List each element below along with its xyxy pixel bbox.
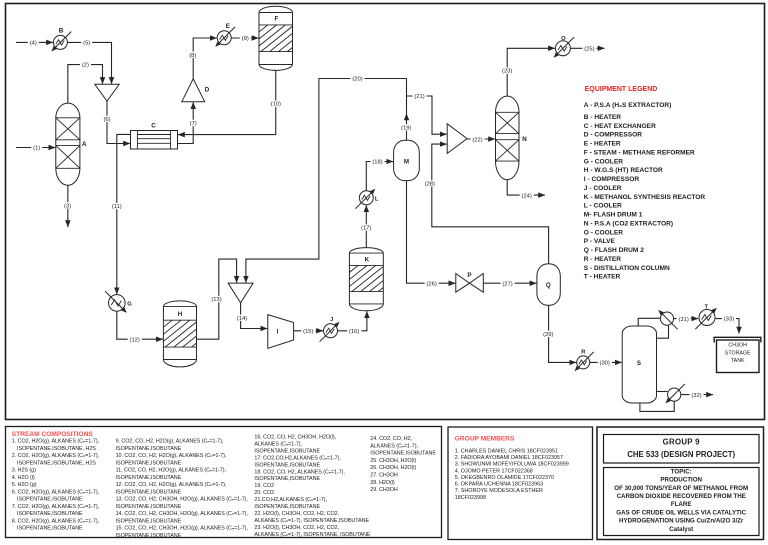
svg-text:ISOPENTANE,ISOBUTANE: ISOPENTANE,ISOBUTANE — [254, 476, 320, 482]
group members box — [448, 427, 593, 540]
svg-text:ISOPENTANE,ISOBUTANE, H2S: ISOPENTANE,ISOBUTANE, H2S — [17, 446, 96, 452]
svg-text:ISOPENTANE,ISOBUTANE: ISOPENTANE,ISOBUTANE — [17, 526, 83, 532]
svg-text:GROUP 9: GROUP 9 — [663, 438, 700, 447]
svg-text:24. CO2, CO, H2,: 24. CO2, CO, H2, — [370, 436, 412, 442]
diagram border frame — [6, 4, 765, 420]
compressor D — [182, 79, 205, 102]
stream (7) C to compressor D — [178, 102, 194, 143]
svg-text:G - COOLER: G - COOLER — [584, 158, 623, 165]
stream (1) feed into A — [16, 147, 55, 149]
svg-text:ISOPENTANE,ISOBUTANE: ISOPENTANE,ISOBUTANE — [254, 448, 320, 454]
svg-text:29. CH3OH: 29. CH3OH — [370, 487, 398, 493]
mixer2 junction triangle — [447, 124, 467, 154]
stream (32) reboiler outlet — [681, 394, 713, 396]
node label (7) — [188, 120, 199, 126]
svg-text:(2): (2) — [82, 62, 89, 68]
stream (13) H to mixer3 — [197, 259, 237, 339]
svg-text:FLARE: FLARE — [671, 501, 692, 508]
reboiler circle — [668, 388, 681, 401]
svg-text:S: S — [637, 360, 641, 367]
svg-text:12. CO2, CO, H2, H2O(g), ALKAN: 12. CO2, CO, H2, H2O(g), ALKANES (Cₙ=1-7… — [116, 482, 227, 488]
svg-text:OF 30,000 TONS/YEAR OF METHANO: OF 30,000 TONS/YEAR OF METHANOL FROM — [614, 485, 748, 492]
svg-text:STREAM COMPOSITIONS: STREAM COMPOSITIONS — [12, 431, 94, 438]
valve P — [456, 274, 470, 293]
svg-text:1. CO2, H2O(g), ALKANES (Cₙ=1-: 1. CO2, H2O(g), ALKANES (Cₙ=1-7), — [12, 439, 100, 445]
node label (19) — [399, 124, 413, 130]
svg-text:R - HEATER: R - HEATER — [584, 256, 621, 263]
svg-text:ISOPENTANE,ISOBUTANE: ISOPENTANE,ISOBUTANE — [116, 518, 182, 524]
node label (29) — [541, 331, 555, 337]
svg-text:(10): (10) — [271, 102, 281, 108]
svg-text:(8): (8) — [189, 53, 196, 59]
node label (24) — [520, 192, 534, 198]
stream (25) O outlet — [570, 47, 604, 49]
topic box — [604, 468, 760, 536]
node label (5) — [81, 39, 92, 45]
svg-text:D: D — [205, 87, 210, 94]
svg-text:I - COMPRESSOR: I - COMPRESSOR — [584, 176, 640, 183]
stream (29) Q bottom to heater R — [549, 305, 577, 362]
stream (16) J to reactor K bottom — [338, 311, 367, 331]
stream (4) feed into heater B — [16, 41, 53, 43]
svg-text:ISOPENTANE,ISOBUTANE: ISOPENTANE,ISOBUTANE — [116, 475, 182, 481]
vessel N P.S.A CO2 extractor — [496, 96, 520, 180]
svg-text:Q - FLASH DRUM 2: Q - FLASH DRUM 2 — [584, 247, 644, 254]
svg-text:28. H2O(l): 28. H2O(l) — [370, 480, 395, 486]
cooler O — [555, 41, 570, 56]
node label (21) — [413, 93, 427, 99]
stream (9) E to reformer F — [231, 37, 258, 39]
svg-text:8. CO2, H2O(g), ALKANES (Cₙ=1-: 8. CO2, H2O(g), ALKANES (Cₙ=1-7), — [12, 518, 100, 524]
svg-text:1. CHARLES DANIEL CHRIS 18CF02: 1. CHARLES DANIEL CHRIS 18CF023951 — [455, 448, 558, 454]
node label (14) — [235, 315, 249, 321]
distillation column S — [622, 326, 656, 403]
svg-text:21.CO,H2,ALKANES (Cₙ=1-7),: 21.CO,H2,ALKANES (Cₙ=1-7), — [254, 497, 327, 503]
svg-text:M: M — [404, 159, 409, 166]
svg-text:ISOPENTANE,ISOBUTANE: ISOPENTANE,ISOBUTANE — [370, 451, 436, 457]
svg-text:Catalyst: Catalyst — [669, 526, 693, 533]
svg-text:23. H2O(l), CH3OH, CO2, H2, CO: 23. H2O(l), CH3OH, CO2, H2, CO2, — [254, 525, 339, 531]
stream (12) G to reactor H — [117, 311, 163, 339]
stream (14) mixer3 to compressor I — [241, 303, 268, 329]
svg-text:11. CO2, CO, H2, H2O(g), ALKAN: 11. CO2, CO, H2, H2O(g), ALKANES (Cₙ=1-7… — [116, 468, 227, 474]
svg-text:L: L — [375, 197, 379, 203]
node label (4) — [28, 39, 39, 45]
stream compositions box — [6, 427, 442, 538]
svg-text:F: F — [275, 16, 279, 23]
node label (9) — [240, 35, 251, 41]
node label (25) — [582, 45, 596, 51]
svg-text:(30): (30) — [600, 361, 610, 367]
svg-text:6. CO2, H2O(g), ALKANES (Cₙ=1-: 6. CO2, H2O(g), ALKANES (Cₙ=1-7), — [12, 489, 100, 495]
svg-text:A: A — [82, 141, 87, 148]
mixer1 junction triangle — [95, 84, 119, 101]
node label (23) — [500, 67, 514, 73]
svg-text:GROUP MEMBERS: GROUP MEMBERS — [455, 436, 515, 443]
svg-text:(5): (5) — [83, 40, 90, 46]
svg-text:(14): (14) — [237, 316, 247, 322]
svg-text:B: B — [59, 28, 64, 35]
svg-text:E: E — [226, 23, 230, 30]
stream (19) M top up to junction — [406, 114, 408, 141]
svg-text:(31): (31) — [678, 317, 688, 323]
svg-text:G: G — [127, 302, 132, 308]
svg-text:(12): (12) — [130, 338, 140, 344]
svg-text:2. FADIORA AYOBAMI DANIEL 18CF: 2. FADIORA AYOBAMI DANIEL 18CF023957 — [455, 455, 563, 461]
svg-text:ISOPENTANE,ISOBUTANE: ISOPENTANE,ISOBUTANE — [116, 533, 182, 539]
svg-text:(11): (11) — [112, 204, 122, 210]
svg-text:5. H2O (g): 5. H2O (g) — [12, 482, 37, 488]
stream (10) F bottom to C — [178, 70, 276, 134]
vessel H WGS reactor — [163, 301, 196, 367]
svg-text:C: C — [151, 123, 156, 130]
stream (30) R to column S — [590, 361, 622, 363]
svg-text:ISOPENTANE,ISOBUTANE: ISOPENTANE,ISOBUTANE — [116, 446, 182, 452]
svg-text:S - DISTILLATION COLUMN: S - DISTILLATION COLUMN — [584, 265, 670, 272]
svg-text:20. CO2: 20. CO2 — [254, 490, 274, 496]
svg-text:O - COOLER: O - COOLER — [584, 229, 623, 236]
stream (22) mixer2 to column N — [467, 138, 495, 140]
svg-text:4. OJOMO PETER 17CF022368: 4. OJOMO PETER 17CF022368 — [455, 468, 533, 474]
vessel F steam-methane reformer — [259, 6, 293, 70]
svg-text:27. CH3OH: 27. CH3OH — [370, 473, 398, 479]
node label (13) — [210, 296, 224, 302]
stream (33) T to storage tank — [716, 319, 740, 334]
node label (16) — [347, 328, 361, 334]
svg-text:18. CO2, CO, H2, ALKANES (Cₙ=1: 18. CO2, CO, H2, ALKANES (Cₙ=1-7), — [254, 469, 345, 475]
svg-text:19. CO2: 19. CO2 — [254, 483, 274, 489]
stream (28) Q top recycle to mixer2 — [432, 144, 549, 264]
wire S overhead to condenser — [638, 318, 660, 326]
svg-text:6. OKPARA UCHENNA 18CF023963: 6. OKPARA UCHENNA 18CF023963 — [455, 482, 543, 488]
cooler J — [324, 324, 338, 338]
svg-text:16. CO2, CO, H2, CH3OH, H2O(l): 16. CO2, CO, H2, CH3OH, H2O(l), — [254, 435, 336, 441]
heater B — [53, 35, 67, 49]
svg-text:P: P — [467, 272, 471, 279]
svg-text:(23): (23) — [502, 69, 512, 75]
svg-text:(6): (6) — [103, 117, 110, 123]
svg-text:3. H2S (g): 3. H2S (g) — [12, 468, 36, 474]
stream (6) mixer1 to exchanger C — [107, 101, 130, 143]
wire condenser reflux return to S — [657, 326, 669, 339]
svg-text:D - COMPRESSOR: D - COMPRESSOR — [584, 132, 642, 139]
svg-text:(28): (28) — [425, 182, 435, 188]
svg-text:GAS OF CRUDE OIL WELLS VIA CAT: GAS OF CRUDE OIL WELLS VIA CATALYTIC — [616, 509, 746, 516]
stream (27) P to flash drum Q — [483, 282, 536, 284]
stream (17) K top to cooler L — [365, 205, 367, 247]
node label (12) — [128, 336, 142, 342]
svg-text:STORAGE: STORAGE — [725, 350, 751, 356]
wire S bottoms to reboiler loop — [640, 401, 674, 411]
stream (31) condenser to heater T — [674, 318, 699, 320]
flash drum Q — [537, 264, 560, 305]
svg-text:2. CO2, H2O(g), ALKANES (Cₙ=1-: 2. CO2, H2O(g), ALKANES (Cₙ=1-7), — [12, 453, 100, 459]
vessel K methanol synthesis reactor — [349, 248, 383, 311]
svg-text:E - HEATER: E - HEATER — [584, 141, 621, 148]
svg-text:ISOPENTANE,ISOBUTANE, H2S: ISOPENTANE,ISOBUTANE, H2S — [17, 460, 96, 466]
node label (6) — [102, 116, 113, 122]
svg-text:HYDROGENATION USING Cu/Zn/Al2O: HYDROGENATION USING Cu/Zn/Al2O 3/Zr — [619, 518, 744, 525]
svg-text:TOPIC:: TOPIC: — [671, 468, 692, 475]
svg-text:B - HEATER: B - HEATER — [584, 114, 621, 121]
svg-text:M- FLASH DRUM 1: M- FLASH DRUM 1 — [584, 212, 643, 219]
stream (21) junction to mixer2 — [407, 96, 447, 134]
svg-text:P - VALVE: P - VALVE — [584, 238, 616, 245]
svg-text:(21): (21) — [414, 94, 424, 100]
node label (15) — [301, 328, 315, 334]
svg-text:I: I — [277, 329, 279, 336]
svg-text:(4): (4) — [30, 41, 37, 47]
node label (33) — [722, 315, 736, 321]
svg-text:15. CO2, CO, H2, CH3OH, H2O(g): 15. CO2, CO, H2, CH3OH, H2O(g), ALKANES … — [116, 526, 249, 532]
svg-text:J: J — [330, 317, 333, 323]
node label (31) — [677, 316, 691, 322]
stream (18) L to flash drum M — [366, 162, 393, 191]
stream (2) A top to mixer1 — [68, 65, 103, 104]
svg-text:PRODUCTION: PRODUCTION — [660, 477, 702, 484]
mixer3 junction triangle — [228, 283, 253, 303]
wire S side draw to reboiler — [657, 391, 668, 393]
svg-text:25. CH3OH, H2O(l): 25. CH3OH, H2O(l) — [370, 458, 416, 464]
svg-text:CH3OH: CH3OH — [728, 343, 747, 349]
CH3OH storage tank — [717, 340, 760, 373]
svg-text:(13): (13) — [211, 297, 221, 303]
svg-text:26. CH3OH, H2O(l): 26. CH3OH, H2O(l) — [370, 465, 416, 471]
svg-text:7. SHOROYE MODESOLA ESTHER: 7. SHOROYE MODESOLA ESTHER — [455, 488, 543, 494]
svg-text:H - W.G.S (HT) REACTOR: H - W.G.S (HT) REACTOR — [584, 167, 663, 174]
svg-text:N - P.S.A (CO2 EXTRACTOR): N - P.S.A (CO2 EXTRACTOR) — [584, 220, 673, 227]
svg-text:EQUIPMENT LEGEND: EQUIPMENT LEGEND — [585, 86, 658, 93]
svg-text:H: H — [178, 311, 183, 318]
svg-text:(29): (29) — [543, 332, 553, 338]
svg-text:10. CO2, CO, H2, H2O(g), ALKAN: 10. CO2, CO, H2, H2O(g), ALKANES (Cₙ=1-7… — [116, 453, 227, 459]
node label (8) — [187, 52, 198, 58]
cooler G — [109, 295, 126, 312]
node label (17) — [359, 224, 373, 230]
svg-text:4. H2O (l): 4. H2O (l) — [12, 475, 35, 481]
svg-text:K - METHANOL SYNTHESIS REACTOR: K - METHANOL SYNTHESIS REACTOR — [584, 194, 706, 201]
svg-text:CARBON DIOXIDE RECOVERED FROM: CARBON DIOXIDE RECOVERED FROM THE — [617, 493, 746, 500]
svg-text:7. CO2, H2O(g), ALKANES (Cₙ=1-: 7. CO2, H2O(g), ALKANES (Cₙ=1-7), — [12, 504, 100, 510]
svg-text:(25): (25) — [584, 46, 594, 52]
heater E — [217, 31, 231, 45]
cooler L — [359, 191, 373, 205]
svg-text:ALKANES (Cₙ=1-7),: ALKANES (Cₙ=1-7), — [370, 443, 418, 449]
stream (8) D to heater E — [193, 38, 217, 79]
node label (2) — [80, 61, 91, 67]
svg-text:(32): (32) — [691, 393, 701, 399]
svg-text:A - P.S.A (H₂S EXTRACTOR): A - P.S.A (H₂S EXTRACTOR) — [584, 102, 672, 109]
stream (3) A bottoms out — [67, 185, 69, 227]
svg-text:O: O — [561, 36, 566, 42]
svg-text:(3): (3) — [64, 203, 71, 209]
node label (18) — [371, 158, 385, 164]
svg-text:17. CO2,CO,H2,ALKANES (Cₙ=1-7): 17. CO2,CO,H2,ALKANES (Cₙ=1-7), — [254, 455, 341, 461]
node label (26) — [425, 280, 439, 286]
svg-text:(17): (17) — [361, 226, 371, 232]
title block outer box — [597, 427, 764, 540]
node label (28) — [423, 180, 437, 186]
svg-text:ISOPENTANE,ISOBUTANE: ISOPENTANE,ISOBUTANE — [116, 460, 182, 466]
heat exchanger C — [131, 131, 178, 150]
heater R — [577, 356, 590, 369]
stream (11) C to cooler G — [117, 134, 131, 294]
svg-text:(18): (18) — [372, 160, 382, 166]
svg-text:(1): (1) — [33, 146, 40, 152]
svg-text:T - HEATER: T - HEATER — [584, 274, 621, 281]
svg-text:L - COOLER: L - COOLER — [584, 203, 622, 210]
stream (26) M bottom to valve P — [407, 181, 456, 284]
node label (22) — [471, 136, 485, 142]
heater T — [699, 310, 715, 326]
svg-text:(20): (20) — [352, 77, 362, 83]
svg-text:ISOPENTANE,ISOBUTANE: ISOPENTANE,ISOBUTANE — [116, 489, 182, 495]
svg-text:ALKANES (Cₙ=1-7), ISOPENTANE,I: ALKANES (Cₙ=1-7), ISOPENTANE,ISOBUTANE — [254, 518, 369, 524]
svg-text:ISOPENTANE,ISOBUTANE: ISOPENTANE,ISOBUTANE — [116, 504, 182, 510]
node label (30) — [598, 359, 612, 365]
node label (1) — [31, 144, 42, 150]
svg-text:(7): (7) — [190, 121, 197, 127]
stream (5) B to mixer1 — [67, 42, 111, 84]
svg-text:(15): (15) — [303, 329, 313, 335]
svg-text:(16): (16) — [349, 329, 359, 335]
svg-text:F - STEAM - METHANE REFORMER: F - STEAM - METHANE REFORMER — [584, 149, 695, 156]
svg-text:C - HEAT EXCHANGER: C - HEAT EXCHANGER — [584, 123, 656, 130]
svg-text:22. H2O(l), CH3OH, CO2, H2, CO: 22. H2O(l), CH3OH, CO2, H2, CO2, — [254, 511, 339, 517]
svg-text:CHE 533 (DESIGN PROJECT): CHE 533 (DESIGN PROJECT) — [627, 450, 735, 459]
svg-text:ISOPENTANE,ISOBUTANE: ISOPENTANE,ISOBUTANE — [17, 511, 83, 517]
svg-text:ISOPENTANE,ISOBUTANE: ISOPENTANE,ISOBUTANE — [254, 462, 320, 468]
svg-text:(9): (9) — [242, 36, 249, 42]
vessel A P.S.A H2S extractor — [56, 103, 80, 185]
svg-text:ALKANES (Cₙ=1-7),: ALKANES (Cₙ=1-7), — [254, 441, 302, 447]
svg-text:(33): (33) — [724, 317, 734, 323]
node label (20) — [351, 75, 365, 81]
compressor I — [268, 315, 294, 349]
node label (11) — [110, 203, 124, 209]
node label (32) — [690, 392, 704, 398]
node label (27) — [501, 280, 515, 286]
svg-text:(27): (27) — [502, 281, 512, 287]
svg-text:18CF023998: 18CF023998 — [455, 495, 486, 501]
svg-text:ALKANES (Cₙ=1-7), ISOPENTANE,: ALKANES (Cₙ=1-7), ISOPENTANE, ISOBUTANE — [254, 532, 371, 538]
node label (3) — [62, 202, 73, 208]
svg-text:J - COOLER: J - COOLER — [584, 185, 622, 192]
svg-text:N: N — [522, 136, 527, 143]
svg-text:5. OKEGBENRO OLAMIDE 17CF02237: 5. OKEGBENRO OLAMIDE 17CF022370 — [455, 475, 554, 481]
svg-text:T: T — [705, 305, 709, 311]
node label (10) — [269, 100, 283, 106]
svg-text:ISOPENTANE,ISOBUTANE: ISOPENTANE,ISOBUTANE — [254, 504, 320, 510]
svg-text:(24): (24) — [522, 193, 532, 199]
svg-text:(19): (19) — [401, 125, 411, 131]
svg-text:K: K — [365, 257, 370, 264]
svg-text:TANK: TANK — [731, 358, 745, 364]
svg-text:Q: Q — [546, 282, 551, 289]
condenser circle — [660, 312, 673, 325]
svg-text:3. SHOWUNMI MOFEYIFOLUWA 18CF0: 3. SHOWUNMI MOFEYIFOLUWA 18CF023999 — [455, 462, 569, 468]
flash drum M — [394, 140, 420, 180]
svg-text:(22): (22) — [472, 137, 482, 143]
svg-text:(26): (26) — [426, 281, 436, 287]
stream (15) I to cooler J — [294, 330, 323, 332]
stream (24) N bottoms out — [507, 180, 545, 195]
stream (20) recycle from junction to mixer3 — [246, 79, 407, 283]
svg-text:ISOPENTANE,ISOBUTANE: ISOPENTANE,ISOBUTANE — [17, 497, 83, 503]
svg-text:13. CO2, CO, H2, CH3OH, H2O(g): 13. CO2, CO, H2, CH3OH, H2O(g), ALKANES … — [116, 497, 249, 503]
stream (23) N top to cooler O — [507, 48, 555, 96]
svg-text:9. CO2, CO, H2, H2O(g), ALKANE: 9. CO2, CO, H2, H2O(g), ALKANES (Cₙ=1-7)… — [116, 439, 224, 445]
svg-text:14. CO2, CO, H2, CH3OH, H2O(g): 14. CO2, CO, H2, CH3OH, H2O(g), ALKANES … — [116, 511, 249, 517]
group 9 box — [604, 435, 760, 464]
